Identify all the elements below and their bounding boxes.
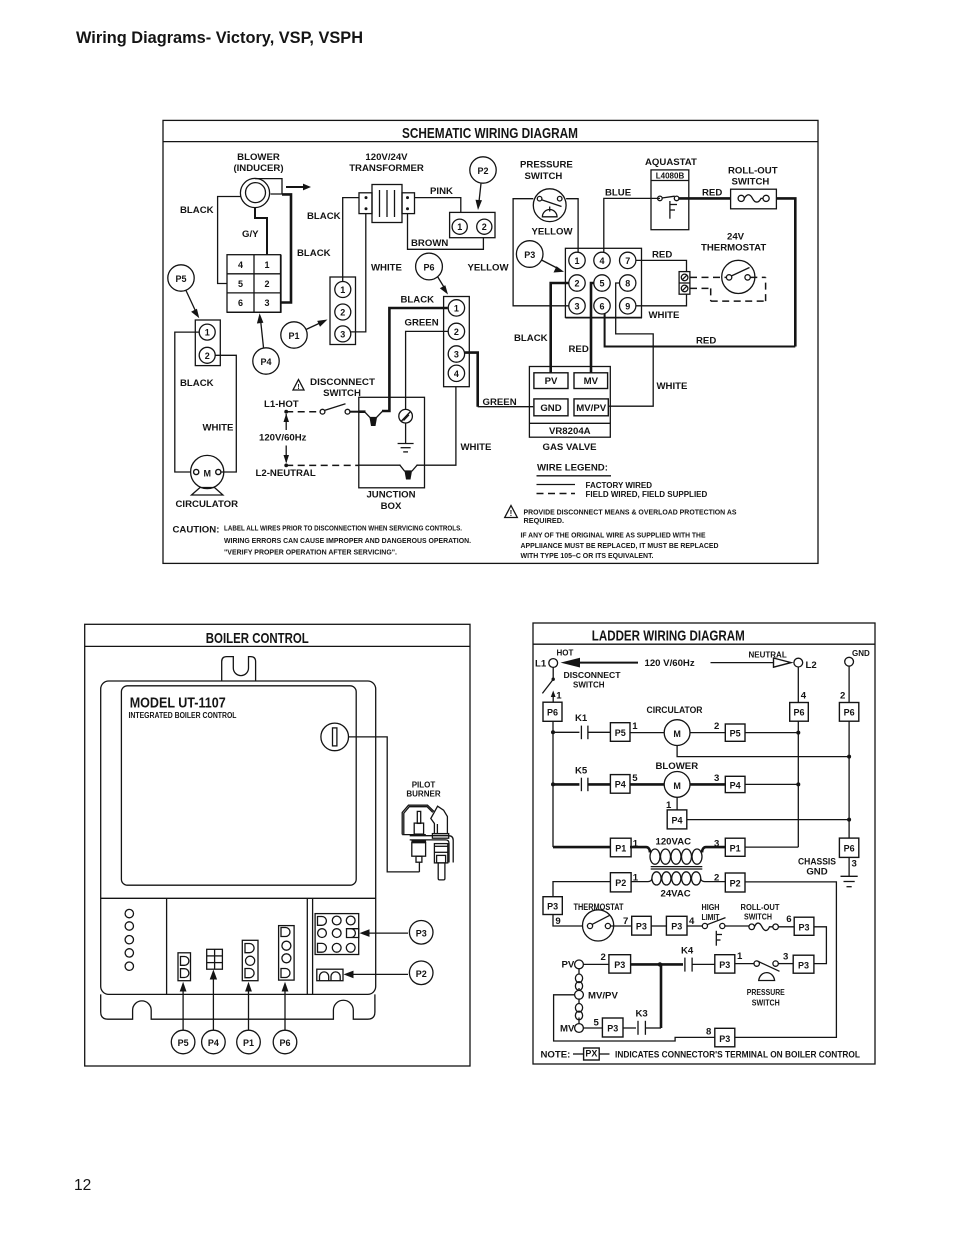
- wire white P6-4 to junction box: [417, 387, 493, 465]
- svg-text:P4: P4: [208, 1038, 219, 1048]
- svg-text:MV/PV: MV/PV: [588, 990, 618, 1001]
- connector P6 on board: [279, 926, 295, 981]
- warning triangle disconnect: [293, 380, 304, 392]
- svg-text:2: 2: [714, 721, 719, 732]
- svg-text:1: 1: [737, 951, 743, 962]
- connector box P3-1: [715, 951, 754, 973]
- svg-text:SWITCH: SWITCH: [744, 913, 772, 922]
- svg-text:P2: P2: [615, 878, 626, 888]
- svg-text:1: 1: [574, 256, 579, 266]
- svg-text:P2: P2: [730, 878, 741, 888]
- connector P3 on board 3x3: [315, 914, 359, 955]
- warning triangle provide disconnect: [505, 506, 518, 519]
- svg-text:WIRING ERRORS CAN CAUSE IMPROP: WIRING ERRORS CAN CAUSE IMPROPER AND DAN…: [224, 536, 471, 545]
- wire P2-1 to P3-9: [553, 882, 610, 897]
- pressure switch PS1: [520, 160, 573, 238]
- svg-text:P6: P6: [547, 707, 558, 717]
- svg-text:GND: GND: [852, 649, 870, 658]
- high limit switch: [702, 903, 750, 946]
- svg-text:6: 6: [238, 298, 243, 308]
- connector label P1 bottom: [237, 1030, 261, 1054]
- svg-text:PV: PV: [562, 960, 575, 971]
- node MV: [560, 1018, 602, 1035]
- blower direction arrow: [286, 184, 311, 191]
- svg-text:P6: P6: [423, 263, 434, 273]
- svg-text:PRESSURE: PRESSURE: [520, 160, 573, 171]
- igniter terminal circle: [321, 723, 349, 751]
- svg-text:1: 1: [264, 260, 269, 270]
- svg-text:P5: P5: [730, 728, 741, 738]
- svg-text:BOILER CONTROL: BOILER CONTROL: [206, 630, 309, 647]
- svg-text:1: 1: [632, 721, 638, 732]
- blower B1 (inducer): [233, 152, 283, 208]
- svg-text:P2: P2: [477, 166, 488, 176]
- svg-text:5: 5: [599, 279, 604, 289]
- svg-text:!: !: [510, 509, 513, 518]
- wire green P6-2 to ground screw: [405, 317, 449, 409]
- control top mounting tab: [222, 657, 256, 681]
- svg-text:P4: P4: [730, 780, 741, 790]
- connector box P1-1: [610, 838, 638, 857]
- svg-text:K4: K4: [681, 946, 694, 957]
- arrow P1 to board: [245, 982, 252, 1030]
- svg-text:SWITCH: SWITCH: [525, 171, 563, 182]
- svg-text:4: 4: [238, 260, 243, 270]
- node L2-NEUTRAL: [256, 464, 316, 480]
- svg-text:4: 4: [801, 691, 807, 702]
- svg-text:P2: P2: [416, 969, 427, 979]
- wire black P5-1 to circulator: [175, 332, 214, 472]
- feed arrow neutral: [711, 651, 792, 668]
- panel frame: [533, 623, 875, 1064]
- note provide disconnect text: [521, 508, 737, 561]
- ground screw in junction box: [399, 409, 413, 443]
- svg-text:(INDUCER): (INDUCER): [233, 163, 283, 174]
- label 24V thermostat: [701, 231, 766, 253]
- svg-text:K3: K3: [636, 1008, 648, 1019]
- svg-text:3: 3: [852, 858, 857, 869]
- svg-text:REQUIRED.: REQUIRED.: [524, 516, 565, 525]
- svg-text:NOTE:: NOTE:: [541, 1049, 571, 1060]
- wire yellow pressure switch right to pin1: [566, 199, 578, 253]
- svg-text:4: 4: [599, 256, 604, 266]
- wire white P5-2 to circulator: [203, 355, 237, 472]
- wire P2-2 right side loop down: [735, 882, 837, 1038]
- connector box P6 hot: [543, 702, 562, 721]
- svg-text:6: 6: [786, 914, 791, 925]
- svg-text:WHITE: WHITE: [649, 310, 681, 321]
- svg-text:2: 2: [264, 279, 269, 289]
- svg-text:PX: PX: [585, 1049, 597, 1059]
- connector P5 block pins 1 2: [195, 320, 220, 366]
- svg-text:!: !: [297, 384, 299, 391]
- status LEDs: [125, 909, 133, 970]
- thermostat T-T circle: [722, 260, 755, 293]
- svg-text:RED: RED: [652, 249, 672, 260]
- svg-text:3: 3: [714, 773, 719, 784]
- pilot burner assembly: [402, 805, 453, 880]
- svg-text:ROLL-OUT: ROLL-OUT: [728, 165, 778, 176]
- svg-text:BLACK: BLACK: [180, 378, 214, 389]
- wire blower black right to terminal 3: [281, 194, 341, 302]
- svg-text:FACTORY WIRED: FACTORY WIRED: [586, 481, 653, 490]
- wire red pin5 to gas valve MV: [569, 283, 595, 373]
- svg-text:FIELD WIRED, FIELD SUPPLIED: FIELD WIRED, FIELD SUPPLIED: [586, 490, 708, 499]
- svg-text:P5: P5: [178, 1038, 189, 1048]
- connector box P4-5: [610, 773, 638, 793]
- wire L2 neutral dashed: [286, 464, 359, 466]
- svg-text:RED: RED: [569, 344, 589, 355]
- wire MV/PV left loop to P3-8: [554, 995, 715, 1041]
- wire blower black left to terminal 5: [180, 197, 241, 284]
- svg-text:P3: P3: [798, 960, 809, 970]
- svg-text:PILOT: PILOT: [412, 780, 436, 789]
- svg-text:BLACK: BLACK: [297, 248, 331, 259]
- svg-text:3: 3: [574, 301, 579, 311]
- svg-text:8: 8: [625, 279, 630, 289]
- connector P1 on board: [242, 940, 258, 980]
- wire P3-2 to K4 thick: [631, 962, 683, 966]
- thermostat ladder: [574, 902, 632, 941]
- svg-text:2: 2: [205, 351, 210, 361]
- wire blue pin4 to aquastat: [604, 187, 660, 252]
- svg-text:3: 3: [714, 839, 719, 850]
- svg-text:INDICATES CONNECTOR'S TERMINAL: INDICATES CONNECTOR'S TERMINAL ON BOILER…: [615, 1049, 860, 1060]
- arrow to P2 label: [344, 971, 409, 979]
- svg-text:L1: L1: [535, 659, 547, 670]
- connector bay dividers: [101, 898, 376, 994]
- svg-text:W: W: [405, 473, 412, 480]
- svg-text:2: 2: [454, 327, 459, 337]
- svg-text:2: 2: [601, 952, 606, 963]
- chassis ground symbol: [841, 857, 858, 886]
- control base plate with notches: [101, 994, 375, 1019]
- svg-text:12: 12: [74, 1177, 91, 1194]
- transformer secondary 24VAC: [631, 872, 725, 900]
- svg-text:BLOWER: BLOWER: [237, 152, 280, 163]
- ground symbol in junction box: [398, 444, 414, 452]
- node MV/PV: [575, 990, 619, 1001]
- svg-text:2: 2: [340, 308, 345, 318]
- svg-text:9: 9: [555, 916, 560, 927]
- svg-text:PV: PV: [545, 376, 558, 387]
- connector P5 on board: [178, 953, 191, 981]
- svg-text:P5: P5: [175, 274, 186, 284]
- svg-text:GREEN: GREEN: [405, 317, 439, 328]
- arrow P4 to board: [210, 970, 217, 1031]
- wire red pin7 to terminal strip: [636, 249, 687, 271]
- svg-text:P6: P6: [279, 1038, 290, 1048]
- roll-out switch S2: [728, 165, 778, 209]
- svg-text:PRESSURE: PRESSURE: [747, 988, 786, 997]
- svg-text:DISCONNECT: DISCONNECT: [564, 671, 621, 680]
- wire igniter to pilot burner: [349, 737, 420, 872]
- label disconnect switch: [310, 377, 375, 399]
- svg-text:P4: P4: [260, 357, 271, 367]
- svg-text:L2: L2: [806, 660, 817, 671]
- svg-text:1: 1: [556, 691, 562, 702]
- caution note: [173, 524, 472, 557]
- wire pink transformer to P2-1: [415, 186, 461, 212]
- svg-text:BLACK: BLACK: [307, 211, 341, 222]
- connector box P3-5: [602, 1018, 636, 1037]
- connector box P3-3: [793, 955, 814, 973]
- wire white transformer to P1-3: [351, 214, 403, 332]
- svg-text:BLACK: BLACK: [180, 205, 214, 216]
- svg-text:AQUASTAT: AQUASTAT: [645, 157, 697, 168]
- wire green P6-3 to gas valve GND: [465, 353, 534, 409]
- gas valve VR8204A: [529, 367, 610, 453]
- svg-text:"VERIFY PROPER OPERATION AFTE: "VERIFY PROPER OPERATION AFTER SERVICING…: [224, 548, 397, 557]
- svg-text:NEUTRAL: NEUTRAL: [749, 651, 787, 660]
- svg-text:DISCONNECT: DISCONNECT: [310, 377, 375, 388]
- svg-text:K1: K1: [575, 713, 588, 724]
- connector box P5-1: [610, 721, 638, 741]
- svg-text:RED: RED: [696, 336, 716, 347]
- svg-text:1: 1: [205, 328, 210, 338]
- svg-text:WHITE: WHITE: [461, 442, 493, 453]
- svg-text:P1: P1: [288, 331, 299, 341]
- connector box P2-2: [714, 873, 745, 892]
- svg-text:3: 3: [454, 350, 459, 360]
- connector box P3-4: [666, 916, 702, 935]
- svg-text:P6: P6: [844, 844, 855, 854]
- contact K4: [681, 946, 715, 972]
- svg-text:BURNER: BURNER: [406, 790, 440, 799]
- svg-text:BOX: BOX: [381, 501, 402, 512]
- connector label P4 bottom: [202, 1030, 226, 1054]
- label 120V/60Hz with arrows: [259, 414, 307, 464]
- svg-text:THERMOSTAT: THERMOSTAT: [701, 243, 766, 254]
- svg-text:1: 1: [340, 285, 345, 295]
- connector box P6-4: [790, 703, 809, 722]
- svg-text:L2-NEUTRAL: L2-NEUTRAL: [256, 468, 316, 479]
- L2 rail: [796, 667, 807, 847]
- svg-text:JUNCTION: JUNCTION: [366, 490, 415, 501]
- circulator stub to gnd rail: [677, 746, 849, 757]
- svg-text:BLOWER: BLOWER: [656, 761, 699, 772]
- wire nut W2 neutral: [359, 465, 418, 480]
- dashed field wires to thermostat: [690, 277, 766, 301]
- connector box P5-2: [725, 724, 798, 741]
- svg-text:L4080B: L4080B: [656, 171, 685, 180]
- svg-text:P3: P3: [547, 902, 558, 912]
- svg-text:24VAC: 24VAC: [661, 889, 691, 900]
- connector label P3: [516, 241, 564, 273]
- rung 2 blower: wire to K5: [553, 783, 579, 786]
- svg-text:P3: P3: [719, 960, 730, 970]
- circulator motor ladder: [630, 705, 725, 746]
- svg-text:INTEGRATED BOILER CONTROL: INTEGRATED BOILER CONTROL: [129, 711, 237, 720]
- svg-text:9: 9: [625, 301, 630, 311]
- svg-text:GAS VALVE: GAS VALVE: [543, 442, 598, 453]
- wire black pin2 to gas valve PV: [514, 283, 569, 373]
- svg-text:Wiring Diagrams- Victory, VSP,: Wiring Diagrams- Victory, VSP, VSPH: [76, 28, 363, 47]
- svg-text:120V/60Hz: 120V/60Hz: [259, 433, 307, 444]
- contact K3: [636, 1008, 662, 1034]
- svg-text:TRANSFORMER: TRANSFORMER: [349, 163, 424, 174]
- connector P2 on board: [317, 969, 343, 981]
- svg-text:5: 5: [594, 1018, 600, 1029]
- transformer core: [651, 867, 703, 869]
- connector label P6 bottom: [273, 1030, 297, 1054]
- wire yellow pressure switch left to pin3: [468, 199, 569, 306]
- svg-text:P3: P3: [607, 1024, 618, 1034]
- blower motor ladder: [630, 761, 725, 797]
- left rail: [551, 721, 555, 847]
- svg-text:M: M: [673, 781, 681, 791]
- connector P2 block pins 1 2: [450, 212, 495, 237]
- svg-text:4: 4: [689, 916, 695, 927]
- wire black transformer to P1-1: [343, 198, 359, 282]
- svg-text:IF ANY OF THE ORIGINAL WIRE AS: IF ANY OF THE ORIGINAL WIRE AS SUPPLIED …: [521, 531, 706, 540]
- wire white pin8 to gas valve MV/PV: [609, 283, 689, 406]
- connector label P5: [168, 265, 200, 319]
- svg-text:8: 8: [706, 1027, 712, 1038]
- svg-text:BLACK: BLACK: [514, 333, 548, 344]
- wire L1 to P6-1 with arrow: [551, 691, 562, 703]
- svg-text:MODEL UT-1107: MODEL UT-1107: [130, 696, 226, 712]
- connector P4 on board: [207, 949, 223, 969]
- svg-text:MV: MV: [560, 1024, 575, 1035]
- svg-text:M: M: [203, 469, 211, 479]
- svg-text:GND: GND: [540, 403, 561, 414]
- terminal block TB1 (blower): [227, 255, 282, 313]
- connector box P3-9: [543, 897, 583, 927]
- svg-text:G/Y: G/Y: [242, 229, 259, 240]
- connector box P4-1: [667, 810, 849, 829]
- MV coil: [575, 999, 582, 1023]
- control body UT-1107: [101, 681, 376, 994]
- connector box P1-3: [725, 838, 798, 856]
- node L2: [794, 658, 817, 671]
- svg-text:1: 1: [633, 873, 639, 884]
- svg-text:P4: P4: [615, 780, 626, 790]
- svg-text:P1: P1: [243, 1038, 254, 1048]
- svg-text:APPLIIANCE MUST BE REPLACED, I: APPLIIANCE MUST BE REPLACED, IT MUST BE …: [521, 541, 719, 550]
- ladder note: [541, 1048, 861, 1060]
- thermostat terminal strip screws: [679, 272, 690, 295]
- svg-text:MV/PV: MV/PV: [576, 403, 606, 414]
- svg-text:3: 3: [264, 298, 269, 308]
- wire brown transformer to P2-2: [408, 214, 484, 250]
- svg-text:CAUTION:: CAUTION:: [173, 525, 220, 536]
- connector label P1: [281, 320, 328, 349]
- connector box P2-1: [610, 873, 638, 892]
- circulator motor M: [176, 455, 239, 510]
- label pilot burner: [406, 780, 440, 798]
- connector box P3-7: [632, 916, 667, 935]
- connector box P6-2: [839, 703, 858, 722]
- svg-text:M: M: [673, 729, 681, 739]
- wire L1 hot dashed with disconnect switch: [286, 404, 359, 414]
- GND rail: [840, 666, 851, 838]
- svg-text:THERMOSTAT: THERMOSTAT: [574, 902, 624, 913]
- svg-text:LADDER WIRING DIAGRAM: LADDER WIRING DIAGRAM: [592, 628, 745, 645]
- svg-text:LABEL ALL WIRES PRIOR TO DISCO: LABEL ALL WIRES PRIOR TO DISCONNECTION W…: [224, 524, 462, 533]
- svg-text:P3: P3: [671, 922, 682, 932]
- svg-text:BROWN: BROWN: [411, 238, 448, 249]
- svg-text:GND: GND: [806, 866, 827, 877]
- wire black junction to P6-1: [382, 294, 448, 411]
- svg-text:1: 1: [457, 222, 462, 232]
- svg-text:2: 2: [482, 222, 487, 232]
- svg-text:CIRCULATOR: CIRCULATOR: [176, 499, 239, 510]
- svg-text:P3: P3: [636, 922, 647, 932]
- connector label P2: [409, 961, 433, 985]
- svg-text:WHITE: WHITE: [371, 263, 403, 274]
- connector box P6-3 chassis: [798, 838, 859, 877]
- connector box P3-2: [609, 955, 631, 973]
- connector box P3-8: [706, 1027, 735, 1047]
- wire nut W1 hot: [359, 411, 383, 426]
- svg-text:2: 2: [840, 691, 845, 702]
- svg-text:VR8204A: VR8204A: [549, 426, 591, 437]
- node PV: [562, 952, 609, 971]
- transformer primary 120VAC: [630, 837, 725, 865]
- arrow P6 to board: [282, 982, 289, 1030]
- svg-text:6: 6: [599, 301, 604, 311]
- svg-text:4: 4: [454, 369, 459, 379]
- arrow P5 to board: [180, 982, 187, 1030]
- svg-text:2: 2: [574, 279, 579, 289]
- connector P6 block pins 1 2 3 4: [444, 297, 470, 387]
- wire legend: [537, 463, 708, 499]
- connector label P4: [253, 313, 279, 374]
- svg-text:W: W: [370, 420, 377, 427]
- svg-text:P3: P3: [416, 929, 427, 939]
- svg-text:BLUE: BLUE: [605, 187, 632, 198]
- svg-text:P6: P6: [844, 708, 855, 718]
- aquastat L4080B: [645, 157, 697, 230]
- svg-text:P1: P1: [615, 843, 626, 853]
- svg-text:2: 2: [714, 873, 719, 884]
- connector label P6: [416, 253, 448, 294]
- pressure switch ladder: [747, 952, 793, 1008]
- svg-text:L1-HOT: L1-HOT: [264, 399, 299, 410]
- svg-text:P3: P3: [524, 250, 535, 260]
- wire red rollout to pin6: [605, 198, 796, 346]
- feed arrow hot: [561, 658, 639, 668]
- svg-text:5: 5: [238, 279, 243, 289]
- svg-text:7: 7: [625, 256, 630, 266]
- rung 3 transformer primary: [553, 846, 610, 849]
- connector block 9-pin P3: [565, 248, 642, 317]
- connector label P3: [409, 921, 433, 945]
- contact K5: [575, 766, 610, 792]
- node GND: [845, 649, 870, 666]
- svg-text:HIGH: HIGH: [702, 903, 720, 912]
- svg-text:P5: P5: [615, 728, 626, 738]
- svg-text:120 V/60Hz: 120 V/60Hz: [645, 658, 695, 669]
- transformer T1 120V/24V: [349, 152, 424, 223]
- connector box P4-3: [725, 776, 798, 792]
- svg-text:SCHEMATIC WIRING DIAGRAM: SCHEMATIC WIRING DIAGRAM: [402, 125, 578, 142]
- svg-text:P3: P3: [719, 1034, 730, 1044]
- svg-text:7: 7: [623, 916, 628, 927]
- blower stub to P4-1: [666, 797, 677, 811]
- panel frame: [85, 624, 470, 1066]
- svg-text:120V/24V: 120V/24V: [365, 152, 408, 163]
- svg-text:P6: P6: [793, 708, 804, 718]
- svg-text:5: 5: [632, 773, 638, 784]
- svg-text:3: 3: [340, 329, 345, 339]
- connector label P2: [470, 157, 496, 210]
- svg-text:P1: P1: [730, 843, 741, 853]
- svg-text:GREEN: GREEN: [483, 397, 517, 408]
- svg-text:24V: 24V: [727, 231, 745, 242]
- rung 1 circulator: wire to K1: [553, 731, 579, 733]
